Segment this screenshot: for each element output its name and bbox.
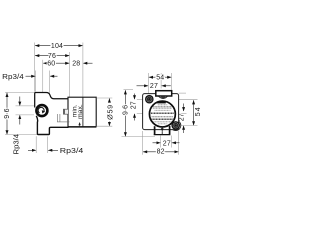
bottom stub — [154, 126, 156, 134]
extension line top port left x=35.6 — [35, 71, 37, 92]
interior detail: clip rect — [63, 109, 68, 114]
top stub socket arc — [158, 96, 167, 98]
front circle — [149, 101, 175, 127]
extension verticals bottom — [160, 136, 162, 148]
min/max divider x=82.9 — [82, 97, 84, 126]
dim 96 vertical — [5, 91, 35, 93]
dim 27 left (outside arrows) — [134, 94, 136, 100]
dim 54 right — [193, 100, 195, 125]
svg-text:76: 76 — [48, 53, 56, 60]
svg-text:28: 28 — [72, 61, 80, 68]
svg-text:60: 60 — [47, 61, 55, 68]
dim 60 — [43, 62, 69, 64]
top stub — [156, 91, 172, 96]
svg-text:96: 96 — [123, 103, 130, 115]
svg-text:27: 27 — [163, 140, 171, 147]
body: lower stub outline — [36, 116, 68, 135]
mounting tab bottom-right — [171, 120, 181, 130]
extension line x=42.75 (60 dim / top port mid) — [42, 60, 44, 92]
small up arrow under max — [78, 122, 80, 125]
Rp3/4 top arrows — [26, 75, 36, 77]
dim 76 — [35, 55, 69, 57]
housing square — [143, 94, 179, 130]
screw bottom-right — [171, 121, 180, 130]
svg-text:54: 54 — [156, 75, 164, 82]
svg-text:Rp3/4: Rp3/4 — [2, 74, 24, 81]
dim 82 bottom — [143, 151, 178, 153]
svg-text:104: 104 — [51, 43, 63, 50]
svg-text:max.: max. — [77, 104, 84, 119]
interior detail lines — [57, 114, 59, 122]
dim Ø59 — [96, 97, 112, 99]
extension horizontals — [137, 99, 144, 101]
knob port dim (outside arrows) — [16, 105, 35, 107]
dim 28 right outside arrow — [83, 62, 92, 64]
knob inner arrow — [38, 107, 44, 113]
screw top-left — [145, 95, 154, 104]
dim 27 right (outside arrows) — [183, 104, 185, 112]
extension line x=82.9 (104/28 right end, max plane) — [82, 43, 84, 98]
body: front plate outline — [35, 93, 69, 108]
bottom port dim Rp3/4 — [35, 136, 37, 153]
extension line x=69.5 (76/60 right end) — [69, 52, 71, 97]
mounting tab top-left — [144, 94, 154, 104]
dim 54 top — [149, 76, 171, 78]
svg-text:Rp3/4: Rp3/4 — [60, 148, 84, 155]
main box (cartridge housing) — [68, 97, 96, 127]
sticker text lines — [151, 105, 174, 124]
knob ring — [36, 105, 47, 116]
svg-text:27: 27 — [150, 83, 158, 90]
svg-text:96: 96 — [4, 106, 11, 119]
svg-text:82: 82 — [157, 148, 165, 155]
dim 96 right view — [124, 89, 134, 91]
svg-text:27: 27 — [130, 101, 137, 109]
svg-text:Rp3/4: Rp3/4 — [14, 134, 21, 155]
svg-text:54: 54 — [195, 106, 200, 116]
extension line left face x=34.65 — [34, 43, 36, 92]
bottom stub drain arrow — [161, 127, 163, 129]
dim 27 top (outside arrows) — [137, 85, 149, 87]
dim 104 — [35, 45, 82, 47]
svg-text:Ø59: Ø59 — [106, 104, 115, 120]
dim 27 bottom (outside arrows) — [153, 142, 161, 144]
svg-text:27: 27 — [178, 113, 185, 121]
extension verticals top — [147, 73, 149, 95]
sticker: hansgrohe bar — [157, 102, 166, 104]
box bottom thicker edge — [68, 126, 96, 128]
extension line top port right x=49.55 — [49, 71, 51, 95]
